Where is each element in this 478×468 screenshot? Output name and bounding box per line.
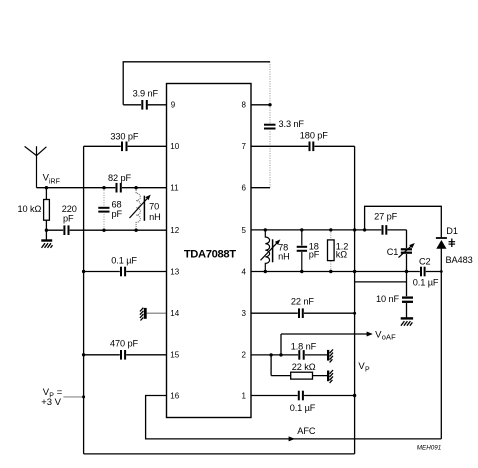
svg-text:82 pF: 82 pF (108, 173, 131, 183)
capacitor 3.9 nF (141, 100, 148, 110)
node: rail pin5 (353, 228, 356, 231)
capacitor 10 nF (402, 296, 413, 303)
label ViRF (43, 173, 60, 186)
svg-text:3.9 nF: 3.9 nF (133, 89, 159, 99)
wire: pin 2 row through 1.8 nF (251, 354, 328, 356)
svg-text:14: 14 (170, 309, 179, 318)
svg-text:180 pF: 180 pF (300, 131, 328, 141)
wire: pin 15 row (84, 354, 167, 356)
svg-text:nH: nH (278, 252, 290, 262)
diode D1 BA483 (436, 238, 447, 249)
svg-text:2: 2 (242, 351, 247, 360)
svg-text:1: 1 (242, 391, 247, 400)
wire: 22 kΩ row (271, 375, 327, 377)
node: pin8 column (268, 103, 271, 106)
capacitor 180 pF (308, 141, 314, 151)
op-amp U1 TDA7088T box (167, 84, 252, 418)
svg-text:470 pF: 470 pF (110, 339, 138, 349)
wire: pin 5 row (251, 229, 355, 231)
capacitor 220 pF (63, 225, 69, 235)
node: 78nH bottom (264, 270, 267, 273)
node: rail pin3 (353, 312, 356, 315)
wire: 10 kΩ branch down to ground (45, 188, 47, 240)
rf ground after 22 kΩ (327, 370, 333, 383)
wire: pin 9 row (123, 104, 166, 106)
wire: pin 14 stub (gray) (147, 312, 167, 314)
node: 27pF branch (363, 228, 366, 231)
svg-text:11: 11 (170, 184, 179, 193)
inductor 78 nH coil (265, 230, 269, 272)
capacitor 1.8 nF (298, 350, 305, 360)
wire: pin8 to pin6 dotted column (269, 62, 271, 188)
wire: 330 pF row to pin 10 (84, 145, 167, 147)
svg-text:4: 4 (242, 267, 247, 276)
svg-text:16: 16 (170, 391, 179, 400)
svg-text:7: 7 (242, 142, 247, 151)
svg-text:pF: pF (63, 214, 74, 224)
wire: pin 6 stub (251, 187, 270, 189)
svg-text:+3 V: +3 V (41, 397, 61, 408)
wire: pin 4 row through C2 to D1 (251, 271, 441, 273)
arrow head AFC (289, 436, 295, 441)
svg-text:0.1 µF: 0.1 µF (290, 403, 316, 413)
inductor 78 nH core bar (272, 239, 274, 262)
wire: 220 pF row to pin 12 (46, 229, 166, 231)
arrow head VoAF (367, 332, 373, 337)
label VP rail (358, 361, 370, 373)
svg-text:15: 15 (170, 351, 179, 360)
svg-text:22 kΩ: 22 kΩ (292, 362, 316, 372)
wire: D1 column down to AFC line (440, 248, 442, 439)
capacitor 68 pF (98, 207, 109, 213)
capacitor C1 variable (401, 248, 412, 254)
node: C1 bottom (405, 270, 408, 273)
svg-text:9: 9 (171, 101, 176, 110)
wire: vertical pin2 to 22k row (270, 355, 272, 376)
node: rail pin1 (353, 394, 356, 397)
node: 70nH bottom (134, 229, 137, 232)
svg-text:oAF: oAF (382, 333, 396, 342)
node: 70nH top (134, 186, 137, 189)
svg-text:3: 3 (242, 309, 247, 318)
wire: pin 16 loop and AFC line (146, 396, 442, 439)
varicap mark (449, 239, 456, 248)
node: 1.2k bottom (329, 270, 332, 273)
capacitor 27 pF (381, 225, 387, 235)
wire: 10 nF to ground (406, 302, 408, 318)
svg-text:27 pF: 27 pF (374, 212, 397, 222)
node: 18pF bottom (300, 270, 303, 273)
svg-text:P: P (365, 367, 370, 374)
node: 68pF bottom (102, 229, 105, 232)
node: 68pF top (102, 186, 105, 189)
resistor R1 10 kΩ (44, 200, 50, 221)
ground under 10 nF (401, 317, 413, 326)
wire: VoAF line (281, 333, 368, 335)
ground under 10k (41, 239, 52, 248)
node: 78nH top (264, 228, 267, 231)
wire: pin 8 stub (251, 104, 270, 106)
svg-text:iRF: iRF (49, 179, 60, 186)
wire: right VP rail (354, 146, 356, 454)
node: 18pF top (300, 228, 303, 231)
capacitor 0.1 µF pin1 (298, 391, 305, 401)
inductor L1 70 nH coil (dotted) (136, 188, 140, 231)
wire: VP lead-in (gray) (63, 396, 83, 398)
svg-text:330 pF: 330 pF (110, 131, 138, 141)
node: pin2 VoAF (279, 353, 282, 356)
wire: 27 pF branch horizontal (355, 229, 407, 231)
capacitor 470 pF (120, 350, 126, 360)
capacitor 3.3 nF (264, 123, 276, 129)
svg-text:12: 12 (170, 226, 179, 235)
svg-text:6: 6 (242, 184, 247, 193)
capacitor 0.1 µF pin13 (120, 267, 126, 277)
svg-text:13: 13 (170, 267, 179, 276)
wire: top loop pin9 to pin8 node (123, 62, 270, 105)
node: 1.2k top (329, 228, 332, 231)
label VoAF (375, 329, 396, 341)
svg-text:10: 10 (170, 142, 179, 151)
svg-text:8: 8 (242, 101, 247, 110)
svg-text:70: 70 (149, 202, 159, 212)
rf ground pin 14 (140, 308, 147, 321)
resistor 22 kΩ (291, 372, 313, 379)
svg-text:3.3 nF: 3.3 nF (279, 119, 305, 129)
svg-text:22 nF: 22 nF (291, 296, 314, 306)
wire: 68pF column (dotted) (103, 188, 105, 231)
antenna (25, 146, 47, 188)
node: ViRF junction (45, 186, 48, 189)
node: rail pin15 (82, 353, 85, 356)
svg-text:pF: pF (309, 249, 320, 259)
svg-text:AFC: AFC (297, 426, 316, 436)
node: 10k bottom (45, 229, 48, 232)
svg-text:TDA7088T: TDA7088T (184, 248, 236, 260)
svg-text:pF: pF (112, 209, 123, 219)
wire: pin 7 row through 180 pF (251, 145, 355, 147)
wire: C1 column (406, 230, 408, 298)
svg-text:C1: C1 (387, 247, 399, 257)
wire: 27 pF branch up and over to D1 (365, 206, 442, 237)
svg-text:0.1 µF: 0.1 µF (111, 255, 137, 265)
capacitor 82 pF (115, 183, 122, 193)
inductor 70 nH arrow (130, 197, 150, 219)
svg-text:BA483: BA483 (446, 255, 473, 265)
capacitor C2 0.1 µF (420, 267, 426, 277)
svg-text:1.8 nF: 1.8 nF (291, 341, 317, 351)
wire: pin 13 row (84, 271, 167, 273)
rf ground after 1.8 nF (327, 349, 333, 362)
capacitor 330 pF (121, 141, 128, 151)
svg-text:0.1 µF: 0.1 µF (413, 278, 439, 288)
svg-text:MEH091: MEH091 (417, 444, 442, 451)
wire: 18 pF column (301, 230, 303, 272)
inductor 78 nH arrow (261, 241, 279, 260)
label VP = +3 V (41, 387, 63, 408)
node: C2 to D1 column (440, 270, 443, 273)
node: rail pin13 (82, 270, 85, 273)
node: pin2 22k (269, 353, 272, 356)
resistor 1.2 kΩ (328, 240, 335, 261)
svg-text:C2: C2 (419, 257, 431, 267)
wire: pin 1 row 0.1uF (251, 395, 355, 397)
capacitor 18 pF (297, 246, 307, 253)
node: rail pin4 (353, 270, 356, 273)
wire: rail to 10nF node (355, 281, 407, 283)
wire: pin 3 row 22 nF (251, 312, 355, 314)
svg-text:kΩ: kΩ (336, 249, 347, 259)
wire: ViRF row to pin 11 (37, 187, 167, 189)
wire: vertical pin2 to VoAF line (280, 334, 282, 355)
svg-text:D1: D1 (446, 226, 458, 236)
wire: left rail (83, 146, 85, 454)
capacitor 22 nF (298, 308, 304, 318)
svg-text:10 kΩ: 10 kΩ (18, 204, 42, 214)
svg-text:nH: nH (149, 212, 161, 222)
resistor 1.2 kΩ column (dotted) (330, 230, 332, 272)
inductor 70 nH core bar (143, 196, 145, 221)
wire: bottom supply line (84, 453, 355, 455)
svg-text:5: 5 (242, 226, 247, 235)
node: rail VP lead (82, 395, 85, 398)
svg-text:10 nF: 10 nF (376, 294, 399, 304)
